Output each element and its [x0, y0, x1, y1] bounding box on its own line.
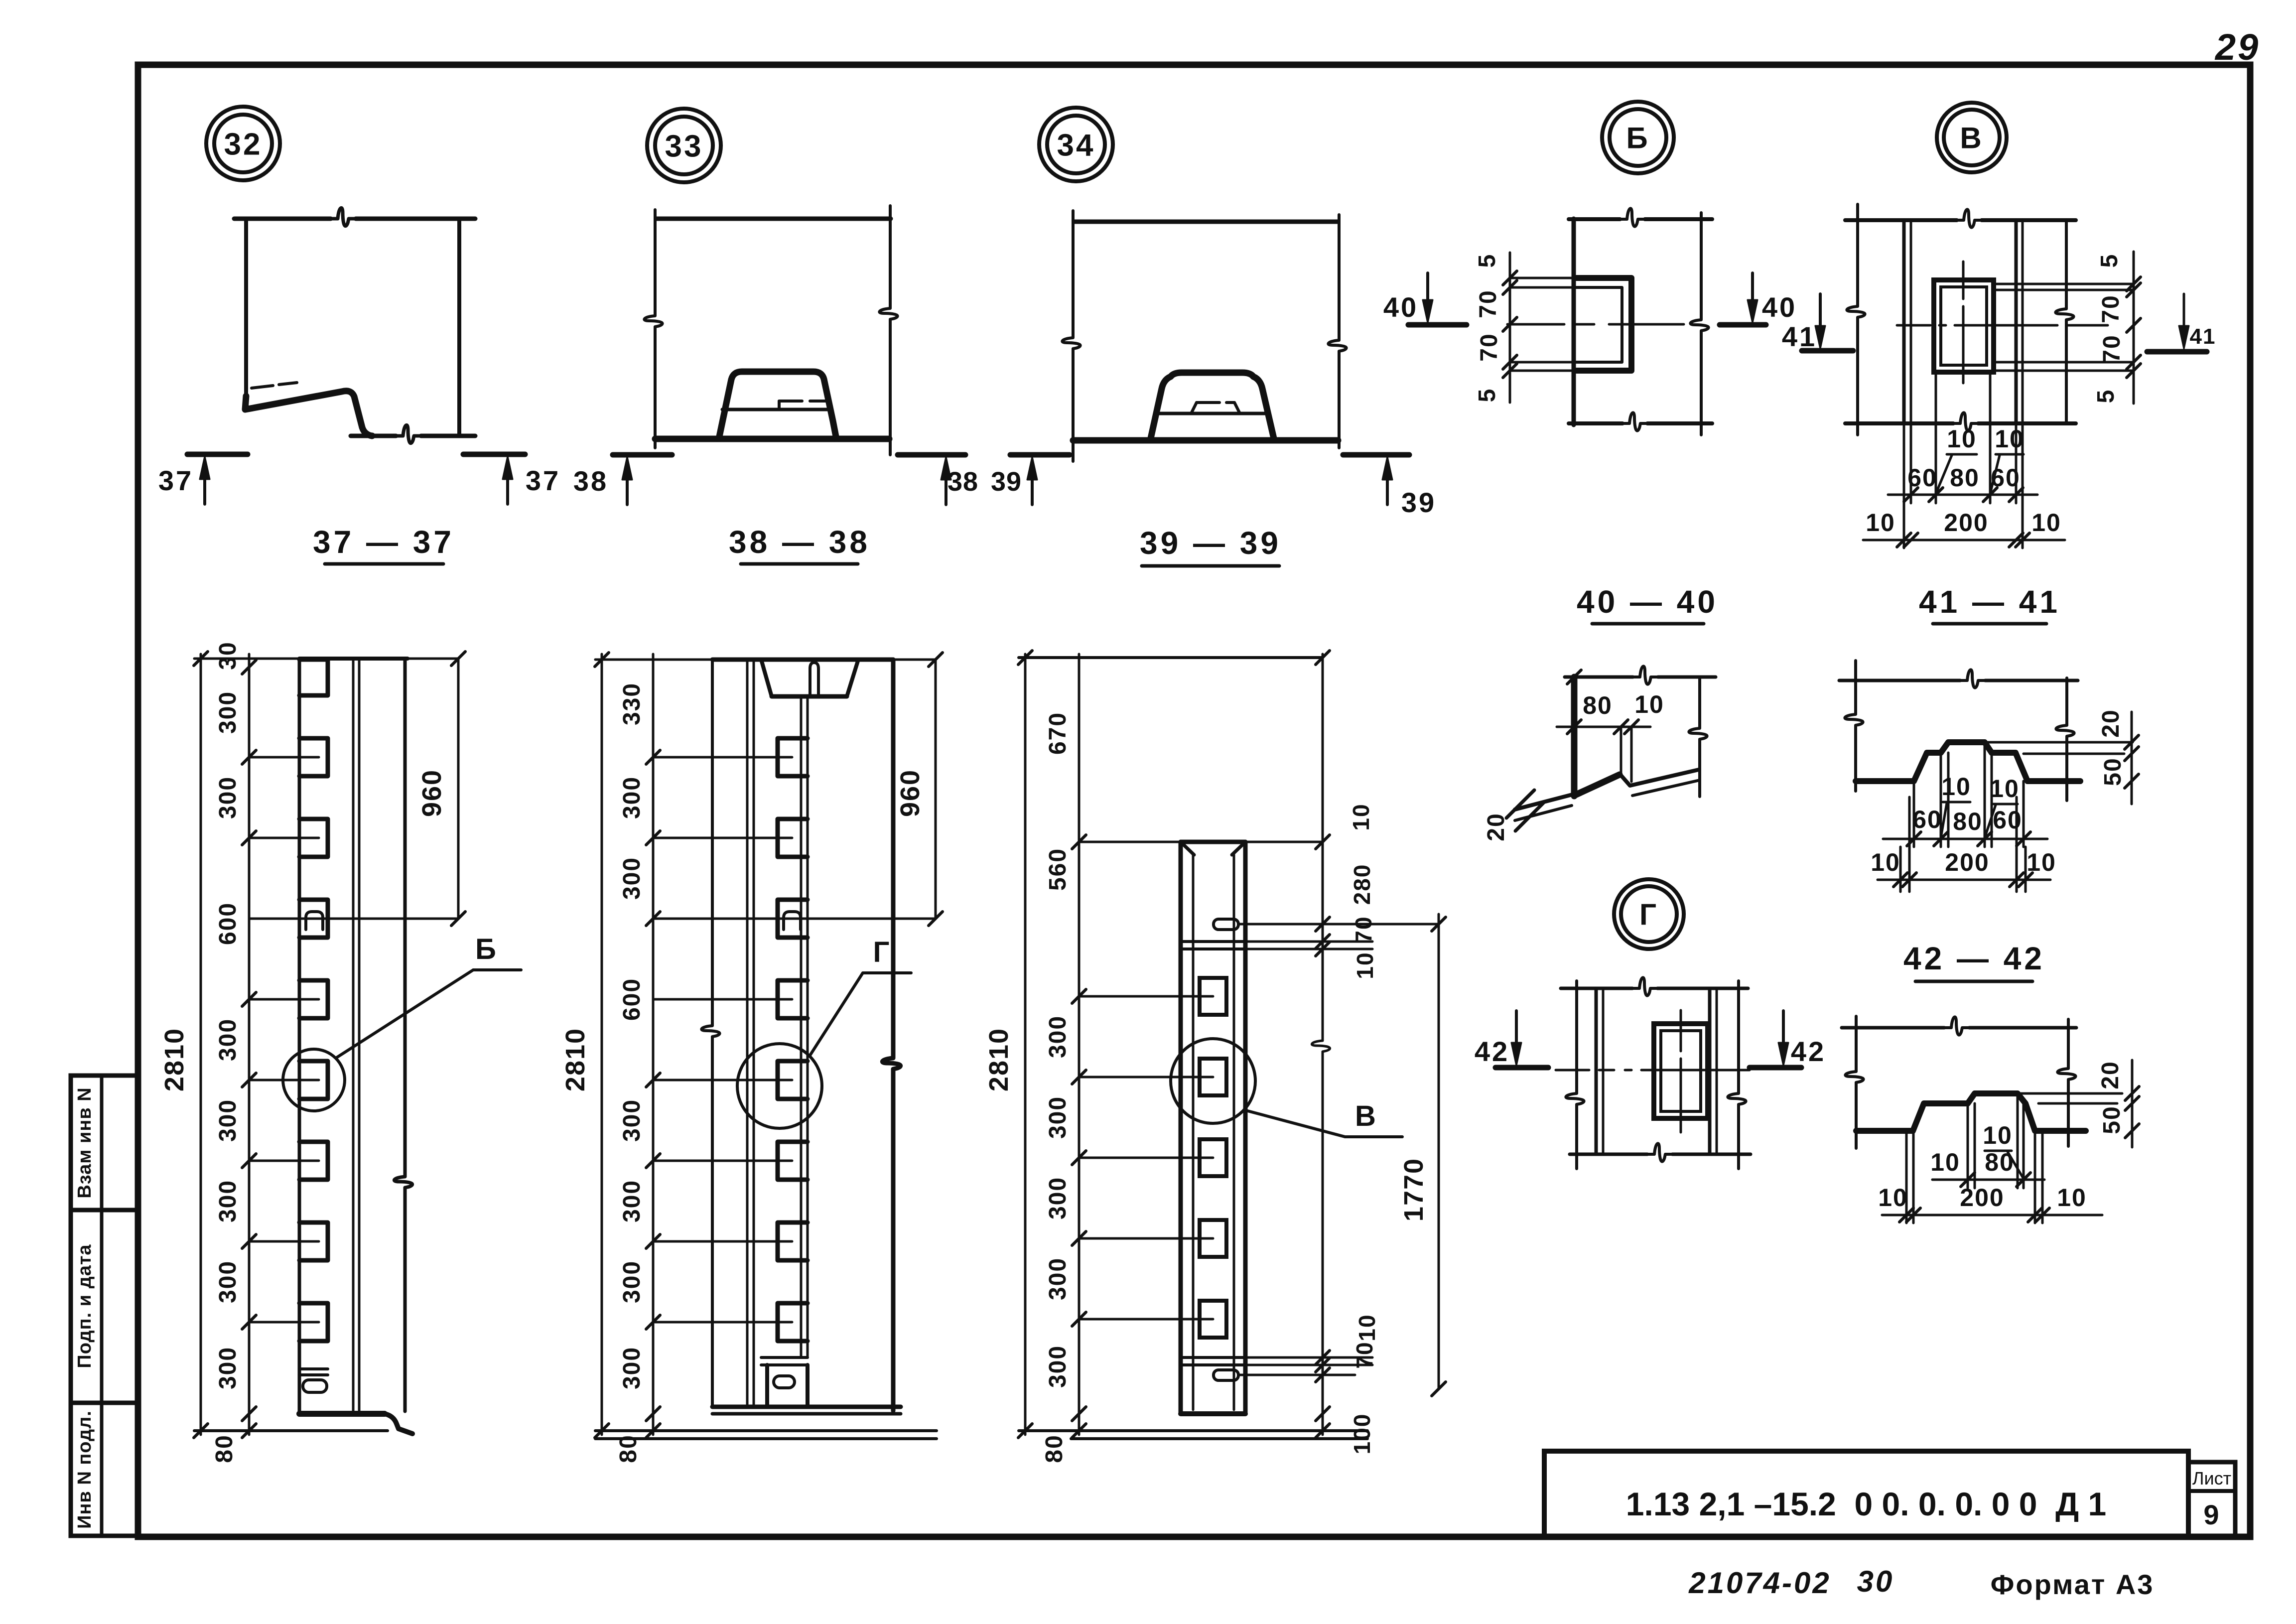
svg-text:300: 300: [215, 776, 241, 819]
detail section 40-40: [1483, 666, 1716, 841]
svg-text:39: 39: [1401, 487, 1436, 518]
svg-text:70: 70: [2098, 294, 2124, 323]
svg-text:20: 20: [2098, 709, 2124, 737]
svg-text:10: 10: [2057, 1184, 2087, 1212]
section mark 40 left: [1383, 273, 1467, 325]
svg-text:80: 80: [1583, 691, 1613, 719]
svg-text:Взам инв N: Взам инв N: [74, 1087, 95, 1198]
svg-text:41: 41: [2190, 324, 2216, 349]
label 39-39: [1140, 525, 1281, 566]
svg-text:50: 50: [2099, 1105, 2125, 1134]
detail circle G(Г): [1614, 879, 1684, 949]
footer texts: [1688, 1565, 2154, 1600]
svg-text:80: 80: [1041, 1434, 1068, 1463]
label 37-37: [313, 524, 454, 564]
svg-text:300: 300: [215, 1347, 241, 1389]
svg-text:34: 34: [1057, 128, 1095, 162]
svg-text:300: 300: [619, 1180, 645, 1222]
svg-text:42 — 42: 42 — 42: [1903, 941, 2045, 976]
detail circle V(В): [1937, 103, 2007, 172]
svg-text:20: 20: [1483, 812, 1509, 841]
section mark 37 right: [463, 454, 560, 504]
svg-text:10: 10: [1878, 1184, 1908, 1212]
svg-text:200: 200: [1960, 1184, 2004, 1212]
svg-text:70: 70: [1351, 916, 1376, 943]
section 39-39 drawing: [1062, 211, 1346, 461]
svg-text:20: 20: [2097, 1061, 2124, 1089]
svg-text:30: 30: [1857, 1565, 1894, 1598]
svg-text:100: 100: [1349, 1413, 1375, 1455]
section mark 39 right: [1343, 455, 1436, 518]
svg-text:600: 600: [619, 978, 645, 1021]
svg-text:2810: 2810: [560, 1028, 590, 1091]
svg-text:10: 10: [1983, 1121, 2013, 1149]
section mark 38 right: [898, 455, 978, 505]
svg-text:300: 300: [1045, 1015, 1071, 1058]
svg-text:41: 41: [1782, 321, 1817, 352]
svg-text:960: 960: [417, 769, 447, 817]
svg-text:70: 70: [1475, 289, 1501, 318]
svg-text:300: 300: [215, 1180, 241, 1222]
column elevation 37-37: [159, 641, 521, 1463]
svg-text:60: 60: [1912, 806, 1942, 833]
svg-text:1.13 2,1 –15.2 0 0. 0. 0. 0 0: 1.13 2,1 –15.2 0 0. 0. 0. 0 0 Д 1: [1626, 1486, 2106, 1522]
label 40-40: [1577, 584, 1718, 624]
svg-text:Г: Г: [873, 936, 891, 968]
svg-text:200: 200: [1944, 509, 1988, 537]
svg-text:10: 10: [1352, 951, 1378, 979]
svg-text:29: 29: [2214, 26, 2260, 68]
svg-text:Б: Б: [475, 933, 497, 965]
svg-text:5: 5: [2096, 254, 2123, 268]
section mark 41 right: [2147, 294, 2216, 352]
svg-text:30: 30: [215, 641, 241, 670]
section mark 42 left: [1475, 1011, 1548, 1068]
section mark 42 right: [1750, 1011, 1826, 1068]
svg-text:10: 10: [1990, 775, 2020, 803]
title block: [1544, 1451, 2235, 1537]
detail circle B(Б): [1602, 102, 1674, 173]
svg-text:280: 280: [1349, 864, 1375, 905]
svg-text:80: 80: [211, 1434, 238, 1463]
svg-text:38: 38: [573, 465, 608, 497]
svg-text:39: 39: [991, 467, 1022, 497]
svg-text:38: 38: [947, 467, 978, 497]
svg-text:300: 300: [215, 691, 241, 734]
svg-text:5: 5: [2093, 389, 2119, 404]
svg-text:Лист: Лист: [2192, 1468, 2231, 1489]
page number 29: [2214, 26, 2260, 68]
svg-text:10: 10: [2026, 848, 2056, 876]
section 37-37 drawing: [234, 208, 475, 443]
svg-text:300: 300: [619, 1099, 645, 1142]
svg-text:70: 70: [1476, 333, 1502, 361]
detail section 42-42: [1842, 1016, 2139, 1223]
label 42-42: [1903, 941, 2045, 981]
svg-text:60: 60: [1907, 464, 1937, 492]
svg-text:Формат А3: Формат А3: [1991, 1569, 2155, 1600]
svg-text:300: 300: [215, 1018, 241, 1061]
detail circle 34: [1039, 108, 1113, 181]
section mark 38 left: [573, 455, 672, 505]
svg-text:10: 10: [1354, 1314, 1380, 1341]
svg-text:5: 5: [1474, 388, 1500, 403]
svg-text:10: 10: [1947, 425, 1977, 453]
svg-text:21074-02: 21074-02: [1688, 1566, 1831, 1600]
svg-text:70: 70: [2099, 334, 2125, 363]
svg-text:300: 300: [215, 1260, 241, 1303]
svg-text:300: 300: [619, 857, 645, 900]
svg-text:80: 80: [1953, 808, 1983, 835]
label 41-41: [1919, 584, 2060, 624]
svg-text:40: 40: [1383, 291, 1418, 323]
svg-text:10: 10: [1941, 773, 1971, 801]
svg-text:5: 5: [1474, 254, 1500, 268]
svg-text:10: 10: [1866, 509, 1895, 537]
svg-text:Г: Г: [1639, 898, 1658, 932]
svg-text:60: 60: [1993, 806, 2023, 834]
svg-text:Инв N подл.: Инв N подл.: [74, 1410, 95, 1529]
svg-text:39 — 39: 39 — 39: [1140, 525, 1281, 561]
svg-text:300: 300: [1045, 1257, 1071, 1300]
svg-text:300: 300: [619, 1347, 645, 1389]
detail circle 32: [206, 107, 280, 180]
svg-text:960: 960: [895, 769, 925, 817]
svg-text:600: 600: [215, 902, 241, 945]
svg-text:560: 560: [1045, 848, 1071, 891]
detail G(Г) plan view: [1556, 977, 1751, 1169]
svg-text:40 — 40: 40 — 40: [1577, 584, 1718, 620]
svg-text:80: 80: [1950, 464, 1980, 492]
section 38-38 drawing: [644, 206, 897, 455]
svg-text:В: В: [1960, 122, 1983, 155]
svg-text:80: 80: [1985, 1148, 2015, 1176]
svg-text:33: 33: [665, 129, 703, 163]
svg-text:В: В: [1355, 1100, 1377, 1132]
svg-text:300: 300: [1045, 1177, 1071, 1219]
column elevation 39-39: [984, 651, 1446, 1463]
section mark 37 left: [158, 454, 248, 504]
label 38-38: [729, 524, 870, 564]
svg-text:42: 42: [1475, 1036, 1509, 1067]
detail section 41-41: [1839, 661, 2139, 892]
svg-text:70: 70: [1351, 1341, 1377, 1368]
svg-text:10: 10: [1348, 803, 1374, 830]
detail circle 33: [647, 109, 721, 182]
column elevation 38-38: [560, 653, 943, 1463]
svg-text:38 — 38: 38 — 38: [729, 524, 870, 560]
svg-text:10: 10: [1995, 425, 2025, 453]
svg-text:300: 300: [619, 776, 645, 819]
svg-text:42: 42: [1791, 1036, 1826, 1067]
svg-text:300: 300: [1045, 1096, 1071, 1139]
svg-text:300: 300: [619, 1260, 645, 1303]
svg-text:Подп. и дата: Подп. и дата: [74, 1244, 95, 1368]
svg-text:300: 300: [1045, 1345, 1071, 1388]
svg-text:37 — 37: 37 — 37: [313, 524, 454, 560]
svg-text:10: 10: [1634, 690, 1664, 718]
detail V(В) plan view: [1845, 204, 2141, 548]
svg-text:37: 37: [526, 465, 560, 496]
svg-text:10: 10: [1930, 1148, 1960, 1176]
svg-text:670: 670: [1045, 712, 1071, 755]
svg-text:300: 300: [215, 1099, 241, 1142]
svg-text:50: 50: [2100, 757, 2126, 786]
stamp column (Vzam inv N / Podp i data / Inv N podl): [71, 1076, 138, 1536]
svg-text:37: 37: [158, 465, 193, 496]
section mark 41 left: [1782, 294, 1853, 352]
svg-text:10: 10: [1871, 848, 1900, 876]
section mark 39 left: [991, 455, 1070, 505]
svg-text:2810: 2810: [159, 1028, 189, 1091]
section mark 40 right: [1720, 273, 1797, 325]
svg-text:2810: 2810: [984, 1028, 1014, 1091]
svg-text:1770: 1770: [1399, 1158, 1429, 1221]
detail B(Б) plan view: [1474, 208, 1712, 435]
svg-text:9: 9: [2203, 1499, 2220, 1530]
svg-text:40: 40: [1762, 291, 1797, 323]
svg-text:330: 330: [619, 682, 645, 725]
svg-text:41 — 41: 41 — 41: [1919, 584, 2060, 620]
svg-text:10: 10: [2031, 509, 2061, 537]
svg-text:200: 200: [1945, 848, 1989, 876]
svg-text:Б: Б: [1626, 122, 1649, 155]
svg-text:32: 32: [224, 127, 263, 161]
